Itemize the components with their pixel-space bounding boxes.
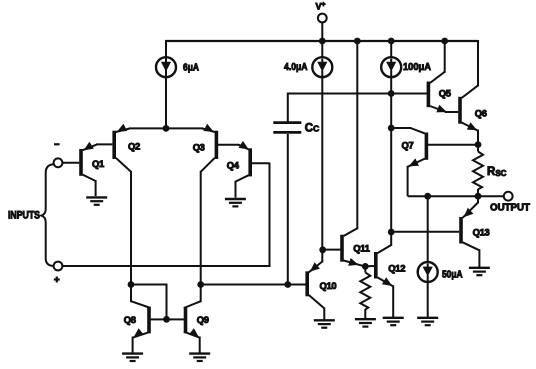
svg-text:Q6: Q6: [475, 108, 487, 119]
ground (Q13 collector): [469, 268, 490, 275]
current source 50uA: [418, 196, 438, 317]
svg-text:100μA: 100μA: [403, 62, 431, 73]
current source 6uA: [156, 41, 176, 128]
svg-text:OUTPUT: OUTPUT: [490, 203, 531, 214]
transistor Q8: [124, 285, 165, 354]
transistor Q11: [324, 41, 370, 266]
svg-text:Q12: Q12: [388, 263, 405, 274]
ground (Q1 collector): [86, 197, 107, 204]
svg-text:Q5: Q5: [439, 87, 451, 98]
terminal IN+: [54, 262, 63, 283]
node: rail / Q5 collector: [441, 38, 448, 45]
node: rail / 100uA source: [388, 38, 395, 45]
capacitor Cc: [273, 123, 319, 135]
svg-text:CC: CC: [305, 123, 319, 135]
wire: IN+ to Q4 base: [62, 163, 269, 267]
svg-text:Q9: Q9: [197, 314, 209, 325]
ground (Q8 emitter): [122, 354, 143, 361]
ground (Q4 collector): [225, 199, 246, 206]
transistor Q2: [114, 124, 140, 285]
ground (R1): [355, 319, 376, 326]
transistor Q3: [193, 124, 239, 285]
terminal OUTPUT: [490, 192, 531, 214]
ground (Q12 emitter): [383, 318, 404, 325]
svg-text:Q4: Q4: [227, 159, 240, 170]
current source 100uA: [381, 41, 401, 232]
svg-text:Q11: Q11: [353, 242, 369, 253]
node: 100uA line / Q7 collector: [388, 125, 395, 132]
inputs brace: [41, 164, 53, 266]
svg-text:Q8: Q8: [124, 314, 136, 325]
node: 50uA tap: [424, 193, 431, 200]
ground (Q10 collector): [314, 320, 335, 327]
wire: Q9 collector to Q10 base: [201, 284, 306, 286]
node: 100uA line / Q12 collector / Q13 base: [388, 229, 395, 236]
wire: Q12/Q13 base line: [391, 231, 459, 233]
wire: Cc top to Q5 base: [288, 94, 427, 122]
current source 4.0uA: [312, 41, 332, 250]
svg-text:Q10: Q10: [320, 280, 337, 291]
svg-text:RSC: RSC: [487, 166, 507, 178]
node: V+ to rail: [319, 38, 326, 45]
svg-text:6μA: 6μA: [183, 62, 199, 73]
transistor Q5: [391, 41, 458, 112]
node: rail / Q11 collector line: [354, 38, 361, 45]
node: Q3 collector / Q9 / Q10 base line: [197, 281, 204, 288]
node: Q8/Q9 bases: [163, 316, 170, 323]
transistor Q6: [460, 40, 487, 145]
svg-text:Q1: Q1: [92, 158, 104, 169]
svg-text:INPUTS: INPUTS: [8, 209, 40, 221]
wire: output node line: [408, 195, 504, 197]
node: Rsc / Q13 emitter / output: [475, 193, 482, 200]
svg-text:4.0μA: 4.0μA: [284, 62, 308, 73]
svg-text:Q7: Q7: [402, 140, 414, 151]
wire V+ top rail: [165, 41, 478, 128]
terminal IN-: [54, 144, 80, 167]
resistor R1 (Q11 emitter): [360, 266, 370, 318]
svg-text:V+: V+: [316, 2, 326, 12]
ground (Q9 emitter): [189, 354, 210, 361]
transistor Q13: [461, 196, 490, 267]
transistor Q10: [307, 250, 336, 321]
transistor Q12: [367, 232, 406, 317]
wire: Q8 diode connection: [131, 285, 167, 320]
transistor Q9: [168, 285, 209, 354]
wire: Cc bottom to Q10 base line: [287, 134, 289, 285]
node: Q2 collector / Q8: [128, 281, 135, 288]
terminal V+: [316, 2, 327, 42]
node: tail of Q2/Q3 emitters: [163, 125, 170, 132]
node: Cc / Q10 base: [284, 281, 291, 288]
node: Q6 emitter / Q7 base / Rsc: [475, 141, 482, 148]
transistor Q1: [81, 142, 112, 196]
svg-text:Q2: Q2: [128, 140, 140, 151]
node: Q11 emitter / R1 / Q12 base: [362, 263, 369, 270]
resistor Rsc: [473, 145, 507, 197]
node: 4uA / Q10 emitter / Q11 base: [319, 246, 326, 253]
svg-text:Q3: Q3: [193, 142, 205, 153]
svg-text:50μA: 50μA: [442, 269, 463, 280]
wire: tail node to Q2/Q3 emitters: [129, 127, 203, 129]
node: Cc-Q5 line / 100uA branch: [388, 90, 395, 97]
svg-text:Q13: Q13: [473, 226, 490, 237]
transistor Q4: [227, 141, 270, 198]
ground (50uA source): [417, 318, 438, 325]
transistor Q7: [391, 128, 478, 196]
